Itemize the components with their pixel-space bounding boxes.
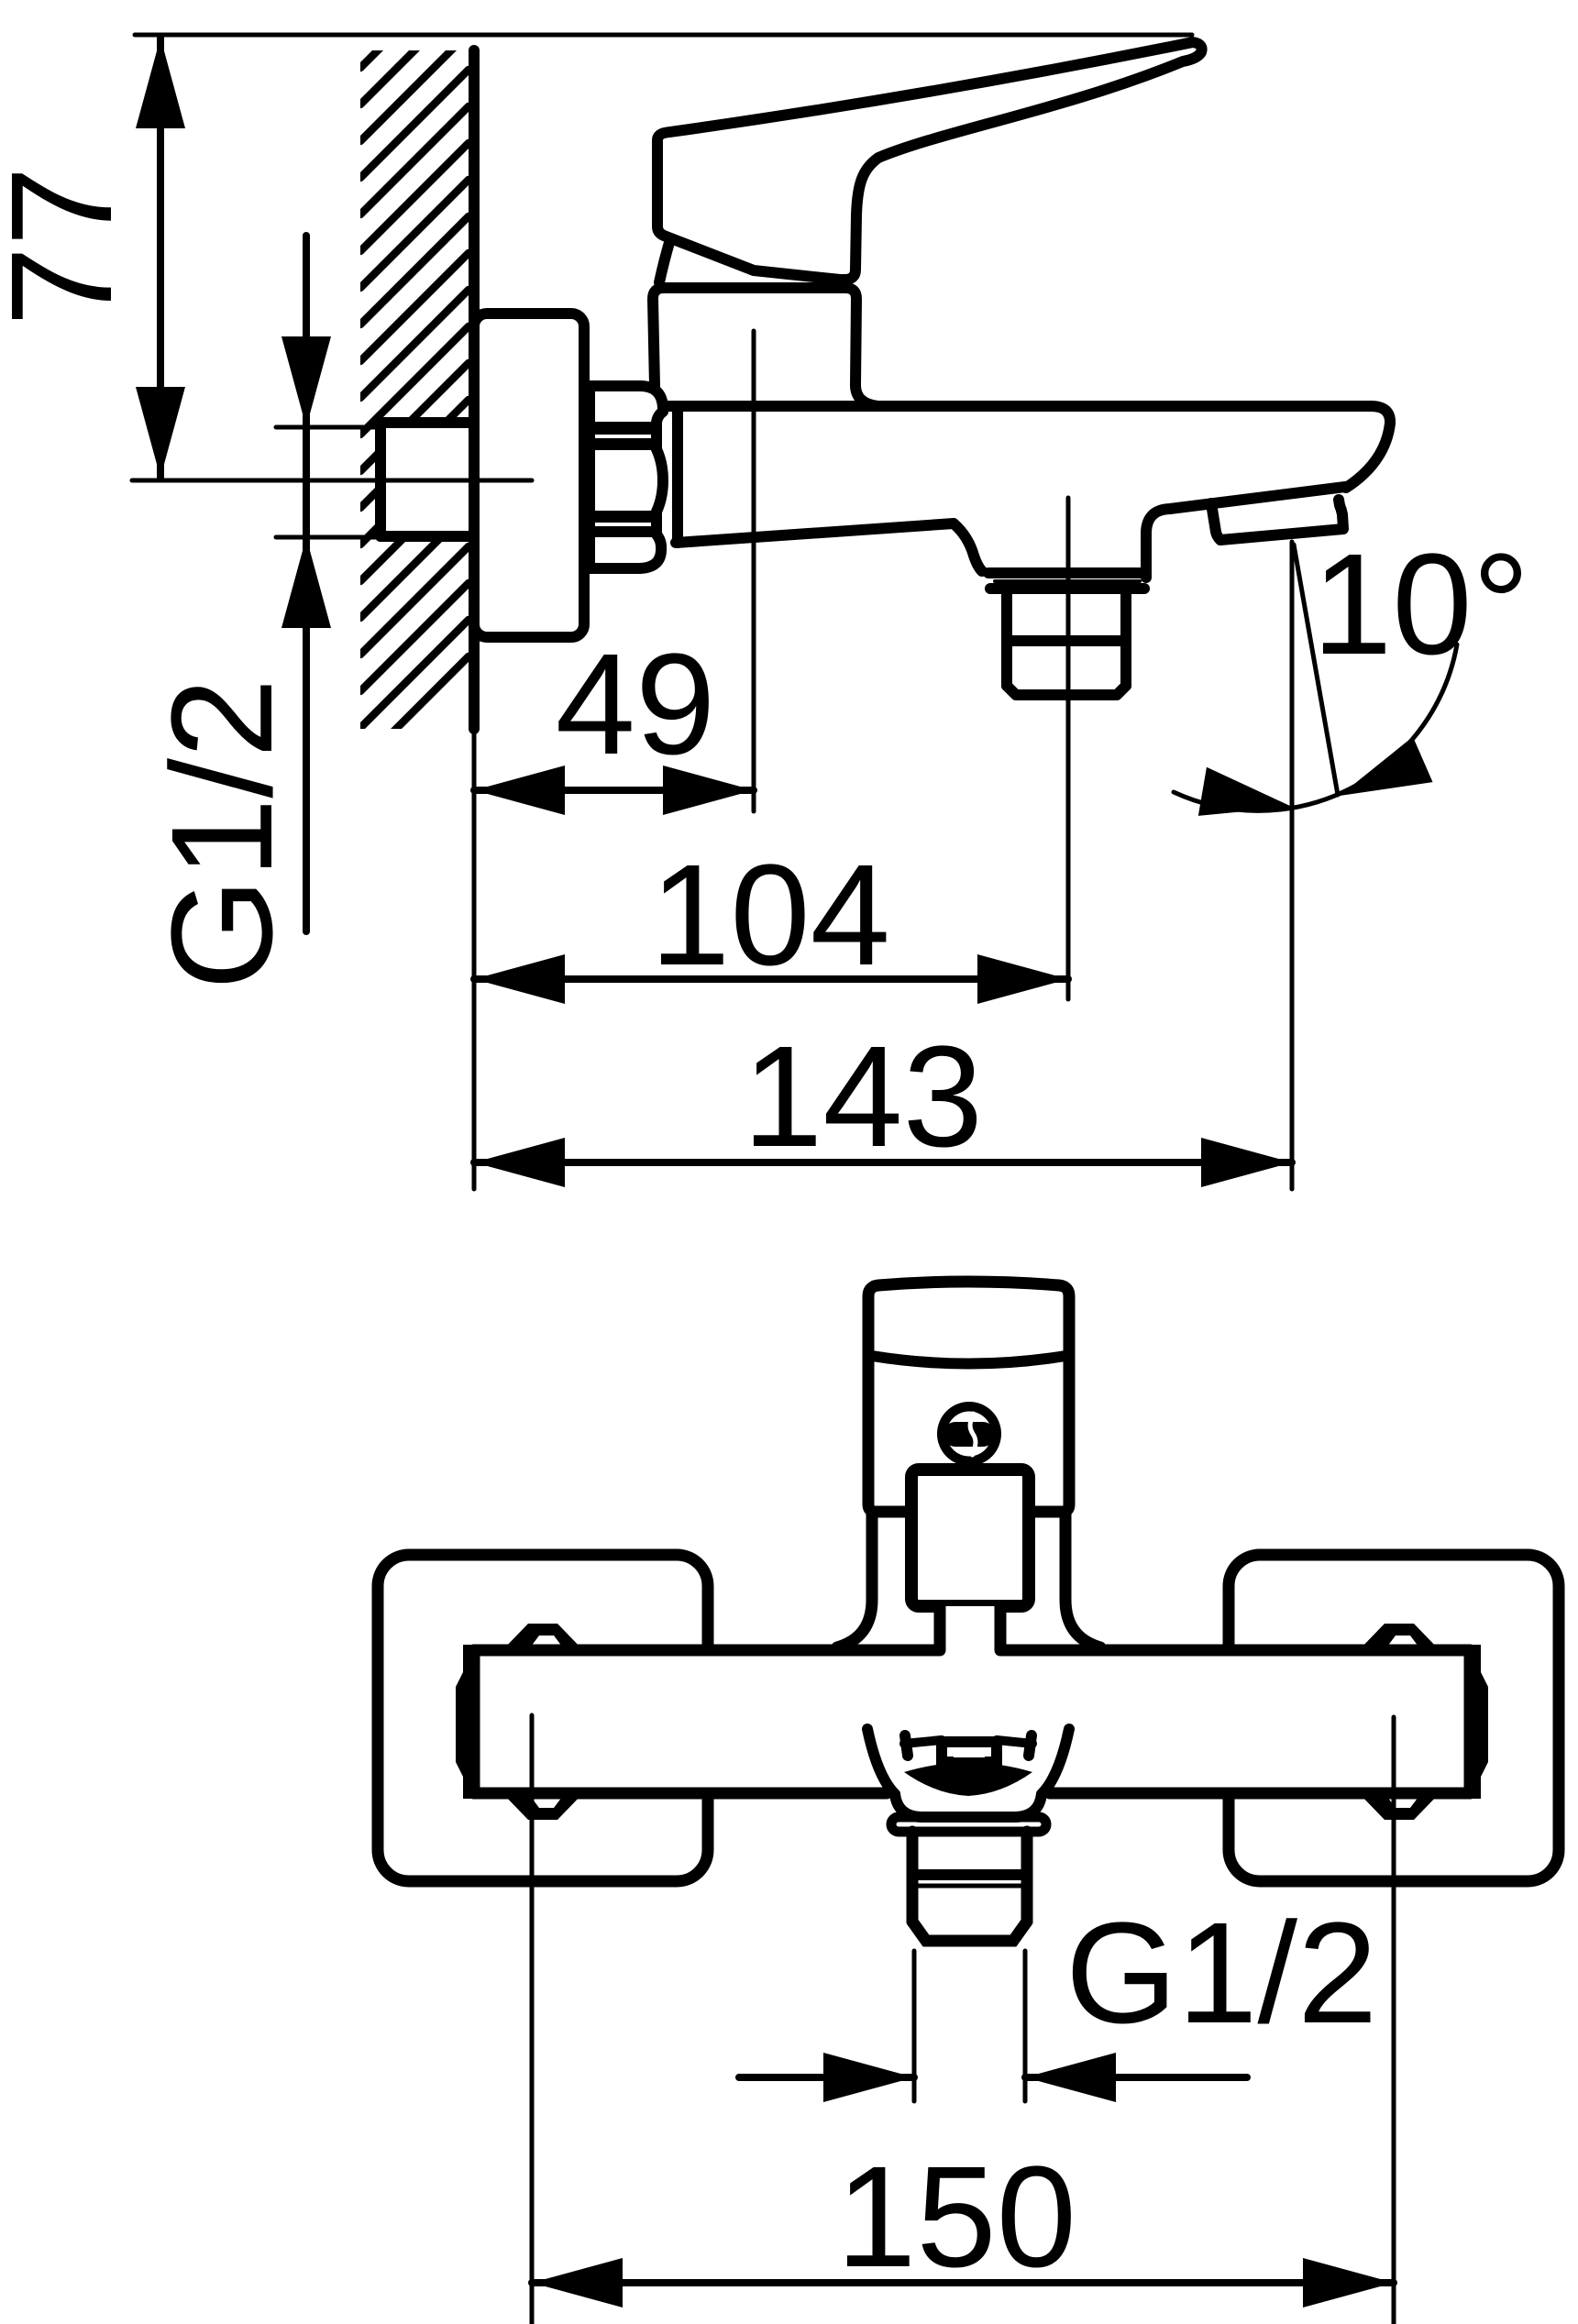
svg-text:G1/2: G1/2: [142, 678, 303, 990]
svg-text:143: 143: [743, 1017, 983, 1177]
svg-text:77: 77: [0, 166, 142, 326]
svg-text:10°: 10°: [1312, 524, 1529, 685]
svg-text:104: 104: [650, 835, 890, 996]
svg-text:49: 49: [556, 624, 716, 785]
svg-text:150: 150: [836, 2137, 1076, 2297]
svg-text:G1/2: G1/2: [1065, 1893, 1377, 2054]
